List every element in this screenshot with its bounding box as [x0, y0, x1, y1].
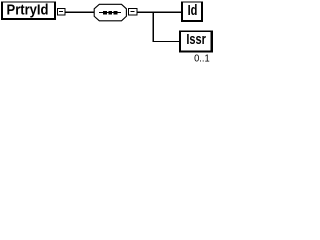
svg-text:PrtryId: PrtryId: [7, 3, 49, 19]
element PrtryId (root element box): [1, 2, 56, 21]
svg-text:0..1: 0..1: [194, 54, 210, 65]
wire to Issr element: [152, 41, 179, 42]
sequence compositor (octagon with three boxes): [94, 4, 126, 21]
expand handle on sequence (minus box): [128, 8, 138, 16]
branch junction vertical wire: [153, 12, 154, 42]
expand handle on PrtryId (minus box): [57, 8, 66, 16]
element Id box: [181, 2, 203, 23]
svg-text:Issr: Issr: [186, 32, 206, 48]
element Issr box (optional): [179, 31, 213, 53]
wire from sequence handle to Id element: [137, 12, 182, 13]
background: [0, 0, 217, 73]
wire from PrtryId handle to sequence: [65, 12, 95, 13]
svg-text:Id: Id: [188, 3, 198, 19]
